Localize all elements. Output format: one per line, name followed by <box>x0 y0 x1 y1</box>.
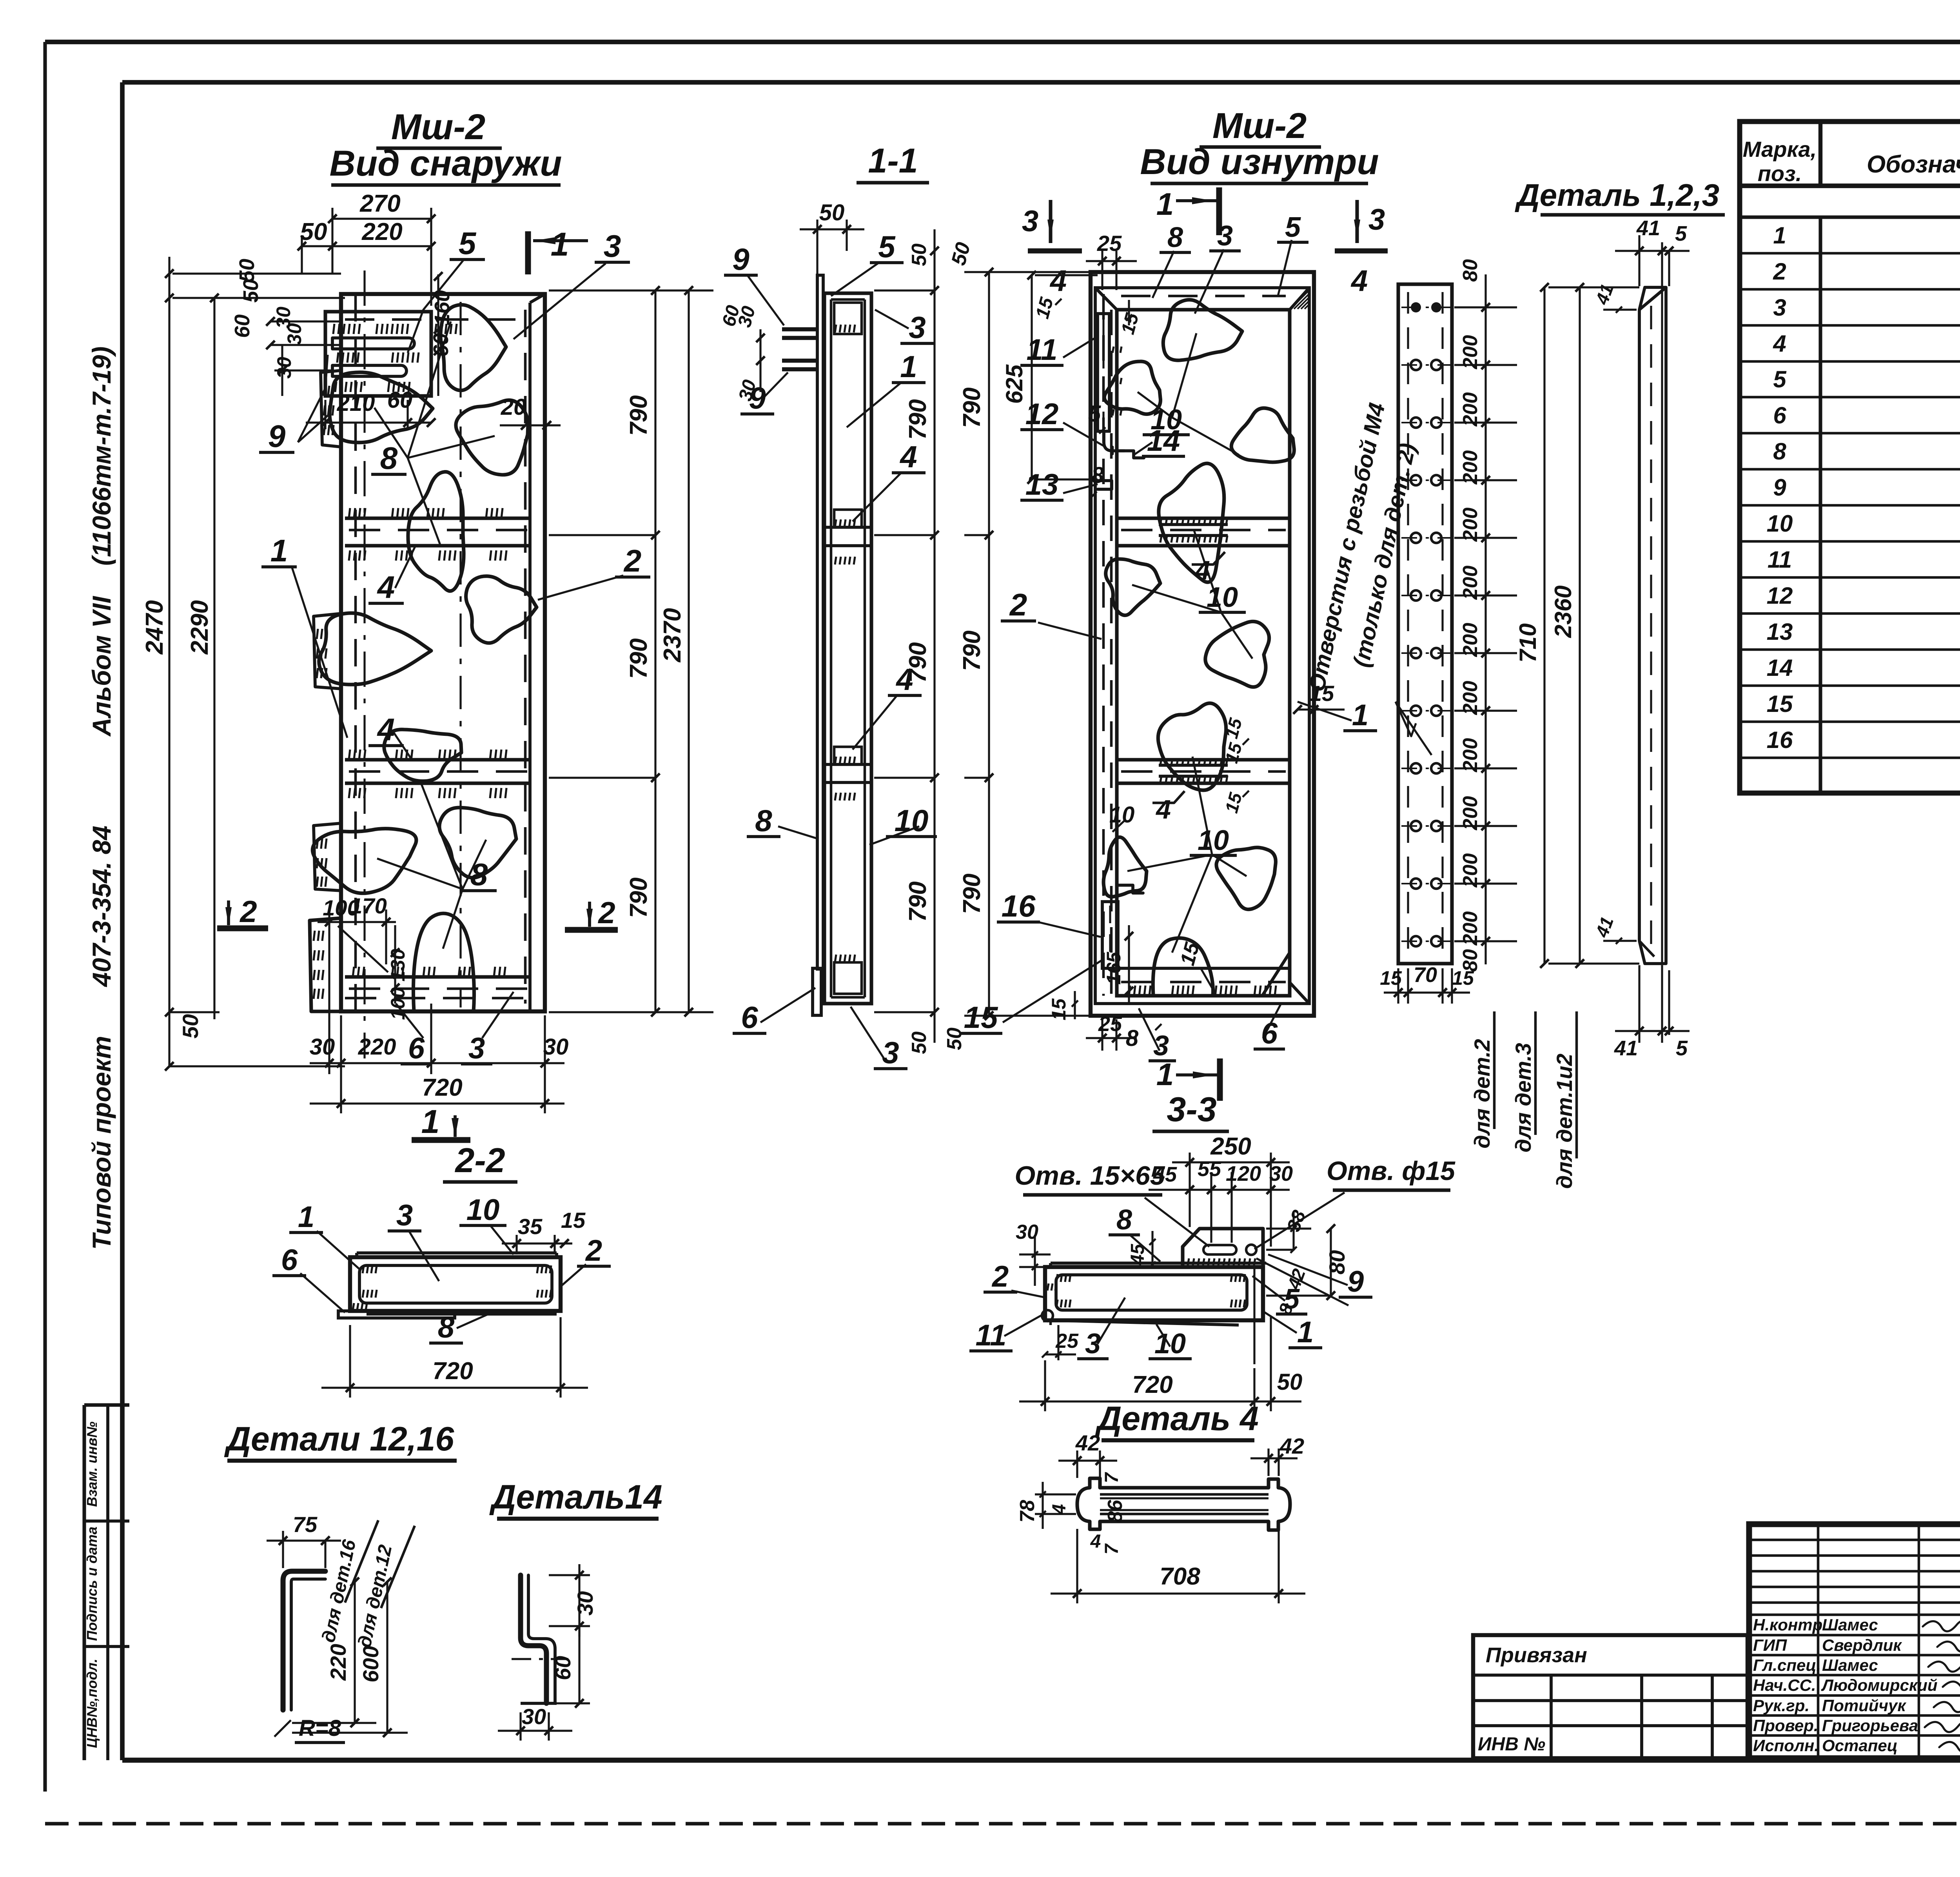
svg-text:2: 2 <box>239 894 257 929</box>
svg-text:10: 10 <box>466 1193 500 1227</box>
svg-text:8: 8 <box>470 857 488 892</box>
outside view dim 160 60 right of plate <box>437 274 439 396</box>
svg-text:15: 15 <box>1048 998 1070 1020</box>
svg-text:60: 60 <box>230 314 254 338</box>
section 1-1 label 1 <box>847 382 902 427</box>
section 2-2 label 1 <box>317 1231 361 1270</box>
section 2-2 mat inner <box>359 1265 552 1303</box>
inside view middle rail band <box>1117 758 1290 761</box>
svg-text:708: 708 <box>1160 1563 1200 1590</box>
svg-text:10: 10 <box>895 803 929 838</box>
outside view mat blob left upper <box>330 372 433 443</box>
svg-text:Деталь14: Деталь14 <box>489 1478 662 1516</box>
inside view bottom dims 25 8 <box>1101 1019 1103 1051</box>
svg-text:10: 10 <box>1154 1328 1186 1360</box>
outside view left hinge dashed line <box>354 294 357 1011</box>
svg-text:12: 12 <box>1025 398 1059 431</box>
section 3-3 top dims 250 45 55 120 30 <box>1189 1153 1191 1227</box>
svg-text:4: 4 <box>1350 264 1368 298</box>
section 2-2 top cover plate <box>357 1251 557 1254</box>
section 1-1 right dims 790 50 <box>874 289 935 291</box>
inside view label 4 rail2 <box>1152 791 1185 803</box>
inside view labels 11 12 13 <box>1063 336 1098 358</box>
section 2-2 bottom left tail <box>338 1311 455 1318</box>
svg-text:6: 6 <box>1773 402 1786 428</box>
svg-text:1: 1 <box>551 226 569 263</box>
svg-text:160: 160 <box>430 290 454 325</box>
svg-text:790: 790 <box>958 873 985 914</box>
inside view detail 14 bracket upper <box>1120 451 1144 458</box>
detail angle bottom small dim 41 <box>1603 940 1637 942</box>
inside view corner hatch top right <box>1290 291 1308 309</box>
inside view dim 165 bottom left <box>1128 925 1130 1004</box>
svg-text:70: 70 <box>1414 963 1437 987</box>
outside view left flap plate b <box>314 614 341 689</box>
svg-text:86: 86 <box>1104 1499 1127 1523</box>
inside view outer outline <box>1091 272 1314 1016</box>
svg-text:8: 8 <box>1091 463 1104 488</box>
svg-text:720: 720 <box>422 1074 462 1101</box>
svg-text:60: 60 <box>387 387 413 413</box>
svg-text:30: 30 <box>273 357 295 379</box>
svg-text:3: 3 <box>396 1199 413 1232</box>
svg-text:20: 20 <box>501 394 526 420</box>
section 1-1 label 4 upper <box>853 472 902 521</box>
main title block frame <box>1749 1524 1960 1758</box>
svg-text:3: 3 <box>1368 203 1385 236</box>
section 1-1 label 3 bottom <box>851 1007 884 1058</box>
svg-text:16: 16 <box>1002 889 1036 923</box>
svg-text:для дет.2: для дет.2 <box>1470 1039 1494 1149</box>
detail strip inner dashed lines <box>1407 292 1409 957</box>
sidebar stamp cells <box>84 1403 129 1407</box>
svg-text:30: 30 <box>310 1034 335 1060</box>
svg-text:10: 10 <box>1198 825 1229 856</box>
outside view bottom rail band <box>345 975 530 978</box>
strip hole row 6 <box>1411 590 1421 601</box>
svg-text:1: 1 <box>1156 187 1174 221</box>
detail 4 dim 708 <box>1076 1529 1078 1603</box>
svg-text:7: 7 <box>1102 1472 1122 1483</box>
parts table column lines body <box>1818 217 1822 793</box>
outside view bottom labels 6 3 <box>396 1004 423 1038</box>
section 2-2 dim 720 <box>349 1325 351 1398</box>
svg-text:2360: 2360 <box>1550 585 1576 638</box>
outside view top dim 50-220 <box>301 235 303 274</box>
outside view right dims 790x3 2370 <box>549 289 713 291</box>
svg-text:220: 220 <box>358 1034 396 1060</box>
strip hole row 7 <box>1411 648 1421 658</box>
outside view top inner edge dashed <box>345 318 525 321</box>
detail 12-16 L rod <box>283 1571 325 1710</box>
section 2-2 channel outer <box>350 1257 561 1311</box>
strip hole row 2 <box>1411 360 1421 370</box>
svg-text:600: 600 <box>358 1646 383 1682</box>
outside view bottom dims 100 170 130 100 <box>328 913 330 1074</box>
inside view bottom labels 3 6 <box>1139 1008 1160 1051</box>
svg-text:200: 200 <box>1459 681 1482 715</box>
svg-text:7: 7 <box>1102 1543 1122 1554</box>
svg-text:200: 200 <box>1459 508 1482 542</box>
section 3-3 dim 30 left <box>1019 1253 1051 1255</box>
svg-text:200: 200 <box>1459 392 1482 427</box>
svg-text:15: 15 <box>1767 691 1793 717</box>
svg-text:50: 50 <box>178 1014 203 1038</box>
svg-text:130: 130 <box>387 949 409 982</box>
strip hole row 12 <box>1411 936 1421 946</box>
outside view label 2 leader <box>538 575 623 600</box>
svg-text:1: 1 <box>421 1103 440 1140</box>
inside view left dims 790 50 <box>988 272 990 1016</box>
inside view dim 25 top <box>1101 251 1103 290</box>
svg-text:Вид снаружи: Вид снаружи <box>329 143 562 183</box>
title block signature grid <box>1749 1539 1960 1541</box>
section 2-2 bottom plate <box>367 1312 557 1316</box>
detail 12-16 dim lines 220 600 <box>354 1582 356 1723</box>
svg-text:9: 9 <box>268 419 286 454</box>
svg-text:8: 8 <box>1167 222 1183 253</box>
section 3-3 bottom plate <box>1051 1320 1239 1325</box>
section 1-1 hinge plate tall <box>817 275 823 969</box>
section 3-3 label 2 left <box>1011 1291 1046 1298</box>
section 1-1 mid separator b <box>824 763 871 766</box>
svg-text:Исполн.: Исполн. <box>1753 1736 1819 1755</box>
inside view labels 16 15 bottom <box>1038 922 1101 937</box>
svg-text:2370: 2370 <box>659 608 686 663</box>
svg-text:50: 50 <box>908 243 931 266</box>
svg-text:Обозначение: Обозначение <box>1867 151 1960 178</box>
svg-text:ЦНВ№,подл.: ЦНВ№,подл. <box>84 1659 100 1748</box>
svg-text:1: 1 <box>270 533 288 568</box>
sheet outer border <box>45 40 1960 44</box>
inside view bottom band <box>1117 967 1290 970</box>
svg-text:3: 3 <box>882 1035 899 1070</box>
inside view mat blob left mid <box>1106 559 1160 615</box>
svg-text:30: 30 <box>1016 1221 1038 1243</box>
svg-text:4: 4 <box>1049 1504 1070 1515</box>
inside view top section mark 1 <box>1216 187 1222 235</box>
section 3-3 left end hatch <box>1047 1283 1049 1291</box>
svg-text:3: 3 <box>1217 220 1233 252</box>
section 3-3 latch vertical line <box>1253 1267 1255 1364</box>
inside view leaders 10 top <box>1172 333 1196 418</box>
section 1-1 label 5 <box>831 262 880 296</box>
hinge plate slot lower <box>332 365 407 376</box>
outside view mat blob right lower <box>439 808 516 878</box>
svg-text:Свердлик: Свердлик <box>1822 1636 1902 1654</box>
svg-text:60: 60 <box>429 333 453 357</box>
svg-text:R=8: R=8 <box>299 1715 341 1741</box>
detail 14 dim 30 top <box>549 1574 590 1576</box>
svg-text:ГИП: ГИП <box>1753 1636 1787 1654</box>
section 3-3 dim 720 50 <box>1044 1360 1046 1411</box>
svg-text:9: 9 <box>732 242 750 276</box>
section 3-3 label 11 left <box>1004 1313 1045 1336</box>
svg-text:200: 200 <box>1459 738 1482 773</box>
outside view left centerline <box>363 270 365 1058</box>
inside view mat blob right low <box>1216 848 1276 909</box>
svg-text:790: 790 <box>958 630 985 671</box>
inside view dim 15 right edge <box>1298 708 1345 710</box>
section 3-3 label 8 top <box>1129 1234 1160 1262</box>
inside view second outline <box>1095 288 1309 1004</box>
section 1-1 left dims 60 30 30 <box>759 329 761 392</box>
strip hole row 8 <box>1411 706 1421 716</box>
svg-text:Провер.: Провер. <box>1753 1716 1818 1735</box>
section 1-1 label 9 upper <box>747 274 784 325</box>
svg-text:для дет.1и2: для дет.1и2 <box>1552 1054 1577 1189</box>
svg-text:50: 50 <box>819 200 845 225</box>
inside view mat blob left upper <box>1104 361 1160 414</box>
section 2-2 dims 35 15 <box>515 1235 517 1254</box>
svg-text:790: 790 <box>958 387 985 428</box>
section 1-1 label 8 <box>778 826 818 839</box>
outside view door leaf outline <box>341 294 545 1011</box>
svg-text:Шамес: Шамес <box>1822 1616 1878 1634</box>
inside view left dim 625 <box>1031 275 1033 479</box>
svg-text:5: 5 <box>1675 222 1687 245</box>
inside view leaders 10 low <box>1192 757 1212 855</box>
outside view mat blob right upper <box>456 400 528 475</box>
outside view door centerline <box>459 302 461 1007</box>
section 1-1 label 10 <box>869 826 919 845</box>
svg-text:200: 200 <box>1459 911 1482 946</box>
section 1-1 label 9 lower <box>764 372 788 397</box>
section 2-2 label 2 <box>561 1264 586 1286</box>
svg-text:Мш-2: Мш-2 <box>391 107 485 147</box>
svg-text:50: 50 <box>239 279 263 303</box>
detail strip with holes outline <box>1398 284 1452 964</box>
section 3-3 latch hatch <box>1188 1258 1189 1265</box>
section 1-1 bottom plate <box>813 968 821 1015</box>
detail angle strip dashed <box>1650 306 1652 949</box>
svg-text:30: 30 <box>573 1591 597 1616</box>
inside view label 4 rail1 <box>1192 552 1225 565</box>
detail 14 dim 60 <box>578 1626 580 1703</box>
svg-text:5: 5 <box>878 229 896 264</box>
inside view top jamb dashed <box>1121 295 1286 298</box>
outside view mat blob left mid <box>319 613 431 684</box>
detail strip bottom dims 15 70 15 <box>1397 968 1399 1004</box>
svg-text:30: 30 <box>1269 1162 1293 1185</box>
title block privyazan box <box>1473 1635 1748 1758</box>
outside view top hinge plate pos5 <box>325 312 431 396</box>
outside view left flap plate a <box>321 370 341 447</box>
outside view dim 210 60 below plate <box>324 400 326 429</box>
svg-text:4: 4 <box>377 712 395 747</box>
detail angle strip outline <box>1639 287 1666 964</box>
svg-text:Григорьева: Григорьева <box>1822 1716 1918 1735</box>
inside view top section marks 3-4 left <box>1049 200 1052 243</box>
outside view label 4 upper leader <box>395 546 416 588</box>
svg-text:Деталь 1,2,3: Деталь 1,2,3 <box>1515 178 1719 212</box>
svg-text:200: 200 <box>1459 796 1482 831</box>
outside view mat blob center tall <box>408 472 464 591</box>
svg-text:5: 5 <box>1676 1037 1688 1060</box>
svg-text:15: 15 <box>964 1000 998 1035</box>
svg-text:Вид изнутри: Вид изнутри <box>1140 142 1379 182</box>
svg-text:42: 42 <box>1279 1434 1304 1458</box>
detail 4 dim 42 left <box>1076 1450 1078 1478</box>
svg-text:35: 35 <box>518 1214 543 1239</box>
outside view section mark 2 left <box>217 926 268 931</box>
detail vertical dims 710 2360 <box>1543 287 1545 964</box>
svg-text:15: 15 <box>1452 967 1474 989</box>
svg-text:41: 41 <box>1614 1037 1638 1060</box>
detail 4 dim 42 right <box>1267 1449 1269 1476</box>
svg-text:200: 200 <box>1459 450 1482 485</box>
outside view middle rail band <box>345 758 530 761</box>
section 3-3 small circle pos11 <box>1042 1310 1053 1321</box>
inside view detail 16 pipe bottom <box>1102 902 1118 968</box>
inside view detail 13 plate <box>1098 481 1112 489</box>
svg-text:3-3: 3-3 <box>1167 1090 1216 1129</box>
svg-text:710: 710 <box>1515 623 1541 663</box>
inside view dim 15 bottom left <box>1074 991 1076 1019</box>
svg-text:6: 6 <box>741 1000 758 1035</box>
svg-text:Взам. инв№: Взам. инв№ <box>84 1421 100 1507</box>
section 3-3 latch plate pos9 <box>1183 1229 1263 1267</box>
svg-text:3: 3 <box>1773 294 1786 321</box>
svg-text:11: 11 <box>1027 333 1058 367</box>
svg-text:1: 1 <box>1156 1057 1174 1092</box>
section 3-3 mat inner <box>1056 1275 1247 1310</box>
svg-text:790: 790 <box>904 399 931 439</box>
svg-text:8: 8 <box>1773 438 1786 465</box>
svg-text:ИНВ №: ИНВ № <box>1478 1734 1545 1755</box>
svg-text:5: 5 <box>1773 366 1787 392</box>
detail 12-16 dim 75 <box>282 1531 284 1568</box>
svg-text:10: 10 <box>1207 582 1238 613</box>
inside view detail 12 hook <box>1104 431 1124 451</box>
svg-text:2: 2 <box>1009 587 1027 622</box>
svg-text:Альбом VII: Альбом VII <box>87 595 116 737</box>
inside view inner opening <box>1117 310 1290 996</box>
svg-text:4: 4 <box>377 570 395 604</box>
strip hole row 10 <box>1411 821 1421 831</box>
outside view label 8 leaders <box>408 321 451 458</box>
detail 12-16 radius R8 <box>274 1720 291 1737</box>
svg-text:поз.: поз. <box>1758 161 1802 186</box>
svg-text:2290: 2290 <box>186 600 213 655</box>
svg-text:3: 3 <box>1022 205 1038 238</box>
svg-text:6: 6 <box>1261 1017 1278 1050</box>
svg-text:80: 80 <box>1459 259 1482 282</box>
svg-text:200: 200 <box>1459 566 1482 600</box>
section 3-3 dims right 38 80 42 8 <box>1266 1227 1311 1229</box>
svg-text:14: 14 <box>1767 655 1793 681</box>
inside view detail 14 bracket lower <box>1118 885 1143 893</box>
detail 14 Z rod <box>521 1575 546 1703</box>
svg-text:12: 12 <box>1767 583 1793 609</box>
svg-text:3: 3 <box>1085 1328 1101 1360</box>
svg-text:8: 8 <box>1126 1026 1139 1051</box>
svg-text:25: 25 <box>1055 1330 1079 1352</box>
detail angle top dims 41 5 <box>1638 235 1640 286</box>
svg-text:50: 50 <box>300 218 327 245</box>
hinge plate hatch marks <box>333 324 334 334</box>
inside view pipe pos11 <box>1098 314 1109 431</box>
outside view label 8 lower leaders <box>421 784 463 889</box>
inside view label 1 right <box>1298 702 1352 721</box>
svg-text:45: 45 <box>1127 1243 1148 1265</box>
svg-text:4: 4 <box>1049 264 1067 298</box>
outside view label 4 lower leader <box>392 730 412 761</box>
strip hole row 11 <box>1411 879 1421 889</box>
svg-text:15: 15 <box>1380 967 1402 989</box>
svg-text:Типовой проект: Типовой проект <box>87 1036 116 1250</box>
svg-text:10: 10 <box>1109 802 1135 828</box>
outside view top dim 270 <box>331 208 333 274</box>
outside view left dims 2470 2290 <box>168 257 170 1066</box>
svg-text:14: 14 <box>1147 424 1180 457</box>
outside view section mark 2 right <box>565 927 618 933</box>
svg-text:Потийчук: Потийчук <box>1822 1696 1906 1715</box>
svg-text:5: 5 <box>1284 1283 1300 1315</box>
svg-text:3: 3 <box>468 1032 485 1065</box>
inside view mat blob center tall <box>1159 463 1224 582</box>
section 3-3 labels 5 9 1 <box>1252 1276 1285 1301</box>
svg-text:2: 2 <box>597 895 615 930</box>
inside view corner chamfer top left <box>1095 288 1117 310</box>
section 2-2 label 6 <box>300 1273 345 1312</box>
svg-text:5: 5 <box>1285 212 1301 243</box>
parts table header row <box>1740 183 1960 188</box>
svg-text:Отв. ф15: Отв. ф15 <box>1327 1156 1455 1186</box>
svg-text:5: 5 <box>459 226 477 261</box>
outside view mat blob right mid <box>466 576 537 643</box>
section 1-1 top dim 50 <box>816 220 818 274</box>
section 1-1 bottom box detail <box>834 962 862 994</box>
svg-text:4: 4 <box>1773 330 1786 357</box>
svg-text:Детали 12,16: Детали 12,16 <box>224 1420 455 1458</box>
svg-text:Нач.СС.: Нач.СС. <box>1753 1676 1816 1694</box>
svg-text:120: 120 <box>1226 1162 1261 1185</box>
svg-text:41: 41 <box>1636 216 1660 240</box>
section 3-3 labels 3 10 bottom <box>1098 1298 1125 1344</box>
svg-text:200: 200 <box>1459 853 1482 888</box>
svg-text:16: 16 <box>1767 727 1793 753</box>
inside view label 2 <box>1038 623 1102 639</box>
svg-text:1: 1 <box>1352 699 1368 732</box>
strip hole row 9 <box>1411 763 1421 773</box>
detail angle strip chamfer lines <box>1639 287 1666 310</box>
outside view mat blob center rail <box>384 730 461 781</box>
svg-text:790: 790 <box>625 395 652 436</box>
outside view section mark 1 bottom <box>412 1137 470 1143</box>
inside view top rail band <box>1117 516 1290 520</box>
svg-text:Отв. 15×65: Отв. 15×65 <box>1014 1161 1165 1191</box>
svg-text:170: 170 <box>350 893 387 918</box>
svg-text:1: 1 <box>1773 222 1786 249</box>
svg-text:11: 11 <box>1768 546 1792 573</box>
detail 4 bar outline <box>1077 1478 1290 1530</box>
svg-text:30: 30 <box>283 323 305 345</box>
outside view bottom dim 720 <box>310 1102 564 1104</box>
inside view mat blob center mid <box>1205 621 1269 687</box>
svg-text:3: 3 <box>909 310 926 345</box>
section 3-3 channel outer <box>1045 1267 1263 1320</box>
svg-text:625: 625 <box>1001 364 1027 404</box>
outside view top rail band <box>345 516 530 520</box>
section 3-3 dim 45 mid <box>1151 1231 1153 1266</box>
outside view bottom dim row 30 220 30 <box>340 1015 342 1074</box>
svg-text:4: 4 <box>899 439 917 474</box>
section 1-1 mid separator a <box>824 526 871 529</box>
svg-text:270: 270 <box>359 190 400 217</box>
svg-text:Людомирский: Людомирский <box>1821 1676 1938 1694</box>
svg-text:4: 4 <box>1155 795 1171 824</box>
